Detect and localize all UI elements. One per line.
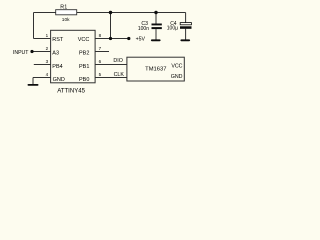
svg-text:8: 8	[99, 33, 102, 38]
svg-text:DIO: DIO	[113, 58, 122, 64]
svg-text:R1: R1	[60, 5, 67, 11]
svg-text:PB0: PB0	[79, 77, 89, 83]
svg-text:2: 2	[46, 46, 49, 51]
svg-text:1: 1	[46, 33, 49, 38]
svg-text:ATTINY45: ATTINY45	[57, 89, 85, 95]
svg-text:CLK: CLK	[114, 72, 125, 78]
svg-text:5: 5	[99, 72, 102, 77]
svg-text:INPUT: INPUT	[13, 50, 29, 56]
svg-text:7: 7	[99, 46, 102, 51]
svg-text:+5V: +5V	[136, 37, 146, 43]
svg-text:PB1: PB1	[79, 64, 89, 70]
svg-text:10k: 10k	[62, 17, 70, 23]
svg-text:PB4: PB4	[52, 64, 62, 70]
svg-text:TM1637: TM1637	[145, 66, 166, 72]
svg-text:3: 3	[46, 59, 49, 64]
svg-text:PB2: PB2	[79, 51, 89, 57]
svg-text:RST: RST	[52, 37, 64, 43]
svg-text:100n: 100n	[138, 26, 149, 32]
svg-text:6: 6	[99, 59, 102, 64]
svg-text:4: 4	[46, 72, 49, 77]
svg-text:GND: GND	[171, 74, 183, 80]
svg-text:VCC: VCC	[171, 64, 182, 70]
svg-text:GND: GND	[53, 77, 65, 83]
svg-text:100µ: 100µ	[167, 26, 178, 32]
svg-text:VCC: VCC	[78, 37, 90, 43]
svg-text:A3: A3	[52, 51, 59, 57]
